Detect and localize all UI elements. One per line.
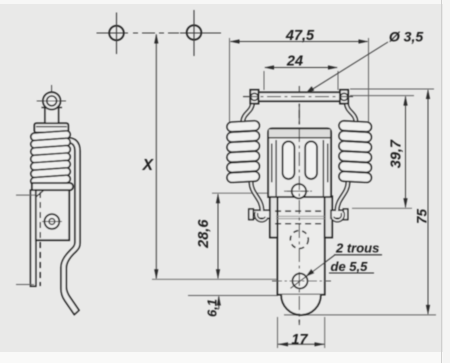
- tick left upper: [16, 194, 35, 196]
- eyelet hole: [47, 96, 57, 106]
- svg-text:X: X: [142, 157, 155, 174]
- hook arm upper (side): [61, 138, 80, 315]
- vertical centerline: [298, 86, 300, 325]
- left spring wire bottom: [251, 182, 262, 211]
- hidden edge dashed: [39, 192, 41, 286]
- flange: [34, 123, 68, 132]
- strap body: [278, 196, 325, 295]
- lever bar centerline over: [243, 96, 355, 98]
- lever bar right cap circle: [341, 93, 348, 100]
- dimension 6,1 line+arrow: [218, 297, 220, 310]
- plate left fold slot: [272, 140, 276, 196]
- tick left lower: [16, 284, 34, 286]
- hole right: [187, 25, 202, 40]
- left ear: [270, 196, 278, 237]
- left spring coils: [227, 121, 260, 183]
- svg-text:6,1: 6,1: [204, 299, 219, 317]
- svg-text:17: 17: [291, 332, 308, 348]
- hidden hole (dashed circle): [290, 231, 308, 249]
- 47,5 extension right: [368, 38, 370, 122]
- lever bar: [259, 92, 341, 101]
- hole right vertical centerline: [193, 10, 195, 56]
- dimension 28,6 line: [217, 194, 219, 278]
- right pin: [331, 210, 343, 218]
- left spring wire top: [243, 103, 253, 122]
- plate top hem: [269, 130, 330, 138]
- plate right fold slot: [323, 140, 327, 196]
- right spring pin hook: [333, 213, 343, 221]
- lever bar left cap circle: [251, 93, 258, 100]
- slot right: [305, 141, 317, 179]
- dimension 28,6 extension top: [212, 192, 269, 194]
- dimension X line: [155, 35, 157, 279]
- slot left: [283, 141, 295, 179]
- leader for diameter 3,5: [308, 42, 389, 92]
- eyelet centerline: [51, 85, 53, 124]
- eyelet crosshair: [37, 100, 66, 102]
- centerline (dash-dot) through holes: [97, 32, 129, 34]
- right spring wire top: [346, 103, 356, 122]
- svg-text:39,7: 39,7: [389, 139, 405, 168]
- back plate: [31, 190, 36, 286]
- lever bar left cap: [250, 90, 258, 104]
- hole crosshair: [272, 280, 331, 282]
- eyelet ring: [43, 92, 60, 109]
- centerline over plate: [298, 104, 300, 325]
- 47,5 extension left: [229, 38, 231, 122]
- svg-text:75: 75: [414, 209, 429, 225]
- plate pivot hole: [292, 184, 306, 198]
- hole left vertical centerline: [116, 13, 118, 55]
- right spring coils: [339, 121, 372, 183]
- svg-text:24: 24: [286, 54, 303, 70]
- shaft: [45, 106, 59, 123]
- pivot crosshair: [287, 190, 311, 192]
- hole left: [109, 26, 124, 41]
- bracket pivot: [45, 214, 60, 229]
- left spring pin hook: [256, 213, 266, 221]
- 47,5 dim line: [231, 41, 368, 43]
- visible hole 5,5: [293, 274, 308, 289]
- svg-text:de 5,5: de 5,5: [331, 259, 369, 274]
- lever bar centerline: [243, 96, 355, 98]
- keeper plate: [268, 129, 331, 198]
- dimension 6,1 extension: [188, 295, 278, 297]
- shaft shoulders: [42, 107, 63, 109]
- leader for 2 trous: [291, 255, 336, 288]
- bracket fold diagonal: [36, 191, 44, 198]
- pin silhouette faint lines: [276, 216, 325, 218]
- bottom plate under spring: [32, 183, 73, 190]
- right spring wire bottom: [337, 182, 348, 211]
- svg-text:47,5: 47,5: [285, 28, 315, 44]
- left pin: [252, 210, 270, 218]
- pivot crosshair over: [284, 190, 314, 192]
- extension line bottom of X: [152, 278, 278, 280]
- side spring coils: [31, 131, 71, 186]
- pivot crosshair: [42, 221, 62, 223]
- right ear: [325, 196, 333, 237]
- lever bar right cap: [340, 90, 348, 104]
- bracket: [36, 190, 69, 240]
- strap bottom semicircle: [281, 295, 321, 315]
- hidden pin dashes: [275, 211, 323, 224]
- svg-text:Ø 3,5: Ø 3,5: [389, 28, 423, 44]
- svg-text:2 trous: 2 trous: [335, 241, 379, 256]
- svg-text:28,6: 28,6: [196, 219, 212, 249]
